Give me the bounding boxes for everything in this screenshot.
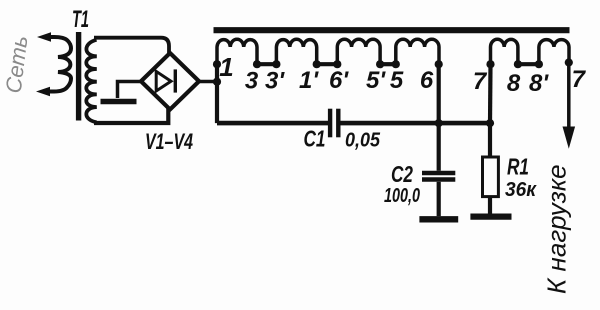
diode symbol inside bridge <box>156 69 175 92</box>
winding 6'-5' <box>337 39 380 64</box>
svg-text:Сеть: Сеть <box>1 34 33 94</box>
transformer T1 core <box>76 32 81 121</box>
terminal 7 left <box>486 60 494 68</box>
wire 1'-6' <box>317 62 338 66</box>
wire bridge output <box>198 80 217 84</box>
winding 5-6 <box>396 39 439 64</box>
wire junction to C2 <box>437 123 441 171</box>
wire 5'-5 <box>380 62 396 66</box>
winding 7-8 <box>491 39 518 64</box>
svg-text:1: 1 <box>219 52 233 82</box>
svg-text:8: 8 <box>507 70 521 97</box>
ground (R1) <box>470 213 511 219</box>
svg-text:C1: C1 <box>304 126 326 152</box>
terminal 6' <box>333 60 341 68</box>
wire 3-3' <box>257 62 276 66</box>
wire secondary bottom to bridge <box>94 108 168 123</box>
svg-text:7: 7 <box>473 68 488 95</box>
capacitor C2 <box>422 173 455 180</box>
svg-text:7: 7 <box>572 66 587 93</box>
winding 1-3 <box>217 39 257 64</box>
wire bridge left to ground <box>118 82 141 99</box>
wire 7 right down to load <box>567 63 571 131</box>
svg-text:5': 5' <box>366 67 386 94</box>
svg-text:5: 5 <box>390 67 404 94</box>
terminal 3 <box>253 60 261 68</box>
wire secondary top to bridge <box>94 38 169 54</box>
svg-text:100,0: 100,0 <box>384 185 420 207</box>
resistor R1 <box>483 157 499 197</box>
capacitor C1 <box>330 109 338 138</box>
junction bridge output <box>213 78 221 86</box>
svg-text:R1: R1 <box>507 154 529 180</box>
wire junction to R1 <box>488 123 492 157</box>
winding 3'-1' <box>276 39 316 64</box>
inductor core bar <box>214 27 570 33</box>
winding 8'-7 <box>539 40 569 65</box>
svg-text:36к: 36к <box>505 179 537 201</box>
terminal 7 right <box>565 58 573 66</box>
svg-text:3': 3' <box>265 68 285 95</box>
mains arrow top head <box>37 32 51 42</box>
terminal 8 <box>514 60 522 68</box>
svg-text:1': 1' <box>299 67 319 94</box>
svg-text:3: 3 <box>245 68 259 95</box>
wire 8-8' <box>518 62 539 66</box>
svg-text:8': 8' <box>529 70 549 97</box>
ground (C2) <box>419 216 458 222</box>
wire R1 to ground <box>488 197 492 214</box>
terminal 8' <box>535 60 543 68</box>
terminal 1' <box>313 60 321 68</box>
terminal 5' <box>376 60 384 68</box>
wire 7 left down <box>488 64 493 123</box>
svg-text:V1–V4: V1–V4 <box>145 129 193 154</box>
terminal 6 <box>435 60 443 68</box>
terminal 5 <box>392 60 400 68</box>
terminal 3' <box>272 60 280 68</box>
bridge rectifier V1-V4 <box>141 53 199 110</box>
junction C2 node <box>435 119 443 127</box>
wire bottom horizontal right of C1 <box>340 121 490 126</box>
arrow to load <box>563 127 576 149</box>
wire node 1 vertical <box>215 64 219 123</box>
svg-text:6': 6' <box>329 67 349 94</box>
svg-text:К нагрузке: К нагрузке <box>542 164 572 294</box>
svg-text:T1: T1 <box>72 6 89 33</box>
wire bottom horizontal left of C1 <box>217 121 328 126</box>
terminal 1 <box>213 60 221 68</box>
wire 6 down <box>437 64 441 123</box>
svg-text:0,05: 0,05 <box>345 129 381 152</box>
ground (bridge) <box>101 99 137 105</box>
svg-text:6: 6 <box>420 67 434 94</box>
transformer T1 secondary winding <box>86 40 97 123</box>
mains arrow bottom head <box>36 87 50 97</box>
wire C2 to ground <box>437 182 441 216</box>
junction R1 node <box>486 119 494 127</box>
svg-text:C2: C2 <box>391 161 413 187</box>
transformer T1 primary winding with mains arrows <box>46 37 71 92</box>
